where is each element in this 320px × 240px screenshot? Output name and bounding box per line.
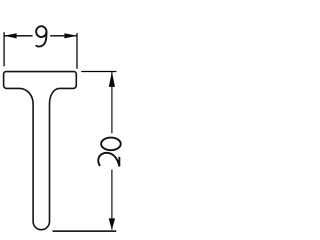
dimension 9: left arrowhead bbox=[4, 33, 17, 38]
dimension 9: left extension line bbox=[3, 32, 5, 66]
dimension 20: bottom extension line bbox=[53, 230, 117, 232]
dimension 9: line left segment bbox=[4, 35, 32, 37]
dimension 9: digit 9 tail bbox=[36, 32, 46, 47]
dimension 9: line right segment bbox=[50, 35, 77, 37]
dimension 9: digit 9 bowl bbox=[36, 26, 46, 37]
dimension 20: top extension line bbox=[81, 71, 116, 73]
dimension 20: digit 0 bbox=[101, 138, 121, 151]
dimension 20: line top segment bbox=[111, 72, 113, 133]
dimension 9: right extension line bbox=[76, 33, 78, 69]
dimension 20: up arrowhead bbox=[109, 72, 115, 87]
dimension 20: line bottom segment bbox=[111, 170, 113, 230]
dimension 20: digit 2 bbox=[98, 153, 119, 167]
dimension 9: right arrowhead bbox=[64, 33, 77, 38]
T-profile outline bbox=[4, 72, 77, 230]
dimension 20: down arrowhead bbox=[109, 218, 115, 230]
